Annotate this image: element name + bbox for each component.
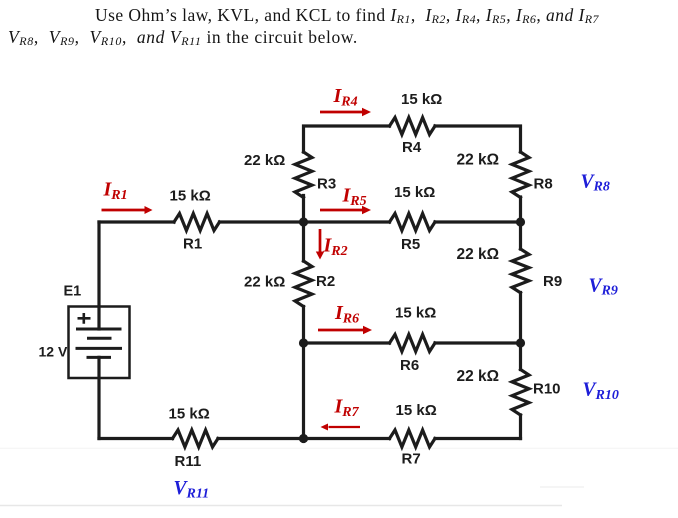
svg-text:VR9: VR9: [589, 275, 618, 298]
svg-text:22 kΩ: 22 kΩ: [244, 152, 285, 169]
svg-text:15 kΩ: 15 kΩ: [170, 188, 211, 205]
svg-text:15 kΩ: 15 kΩ: [395, 305, 436, 322]
svg-text:22 kΩ: 22 kΩ: [457, 246, 500, 263]
svg-text:R9: R9: [543, 273, 562, 290]
svg-text:15 kΩ: 15 kΩ: [169, 406, 210, 423]
svg-text:IR4: IR4: [333, 85, 358, 110]
svg-text:15 kΩ: 15 kΩ: [394, 184, 435, 201]
svg-text:IR5: IR5: [342, 184, 367, 209]
svg-text:15 kΩ: 15 kΩ: [396, 402, 437, 419]
svg-text:R2: R2: [316, 273, 335, 290]
svg-text:R4: R4: [402, 139, 422, 156]
svg-text:15 kΩ: 15 kΩ: [401, 91, 442, 108]
svg-text:IR7: IR7: [334, 396, 360, 421]
svg-text:E1: E1: [64, 284, 82, 300]
svg-text:R7: R7: [402, 451, 421, 468]
svg-text:IR2: IR2: [323, 234, 348, 259]
svg-text:R11: R11: [175, 453, 202, 470]
svg-text:R5: R5: [401, 236, 420, 253]
svg-text:12 V: 12 V: [39, 344, 68, 360]
svg-text:VR10: VR10: [583, 380, 619, 403]
svg-text:VR11: VR11: [174, 478, 210, 501]
svg-text:22 kΩ: 22 kΩ: [457, 152, 500, 169]
svg-text:R3: R3: [317, 176, 336, 193]
svg-text:R8: R8: [534, 176, 553, 193]
svg-text:22 kΩ: 22 kΩ: [457, 368, 500, 385]
svg-text:R1: R1: [183, 236, 202, 253]
svg-text:R6: R6: [400, 357, 419, 374]
svg-text:22 kΩ: 22 kΩ: [244, 274, 285, 291]
svg-text:IR1: IR1: [103, 178, 128, 203]
svg-text:IR6: IR6: [334, 302, 359, 327]
svg-text:R10: R10: [533, 381, 561, 398]
svg-text:VR8: VR8: [581, 171, 610, 194]
